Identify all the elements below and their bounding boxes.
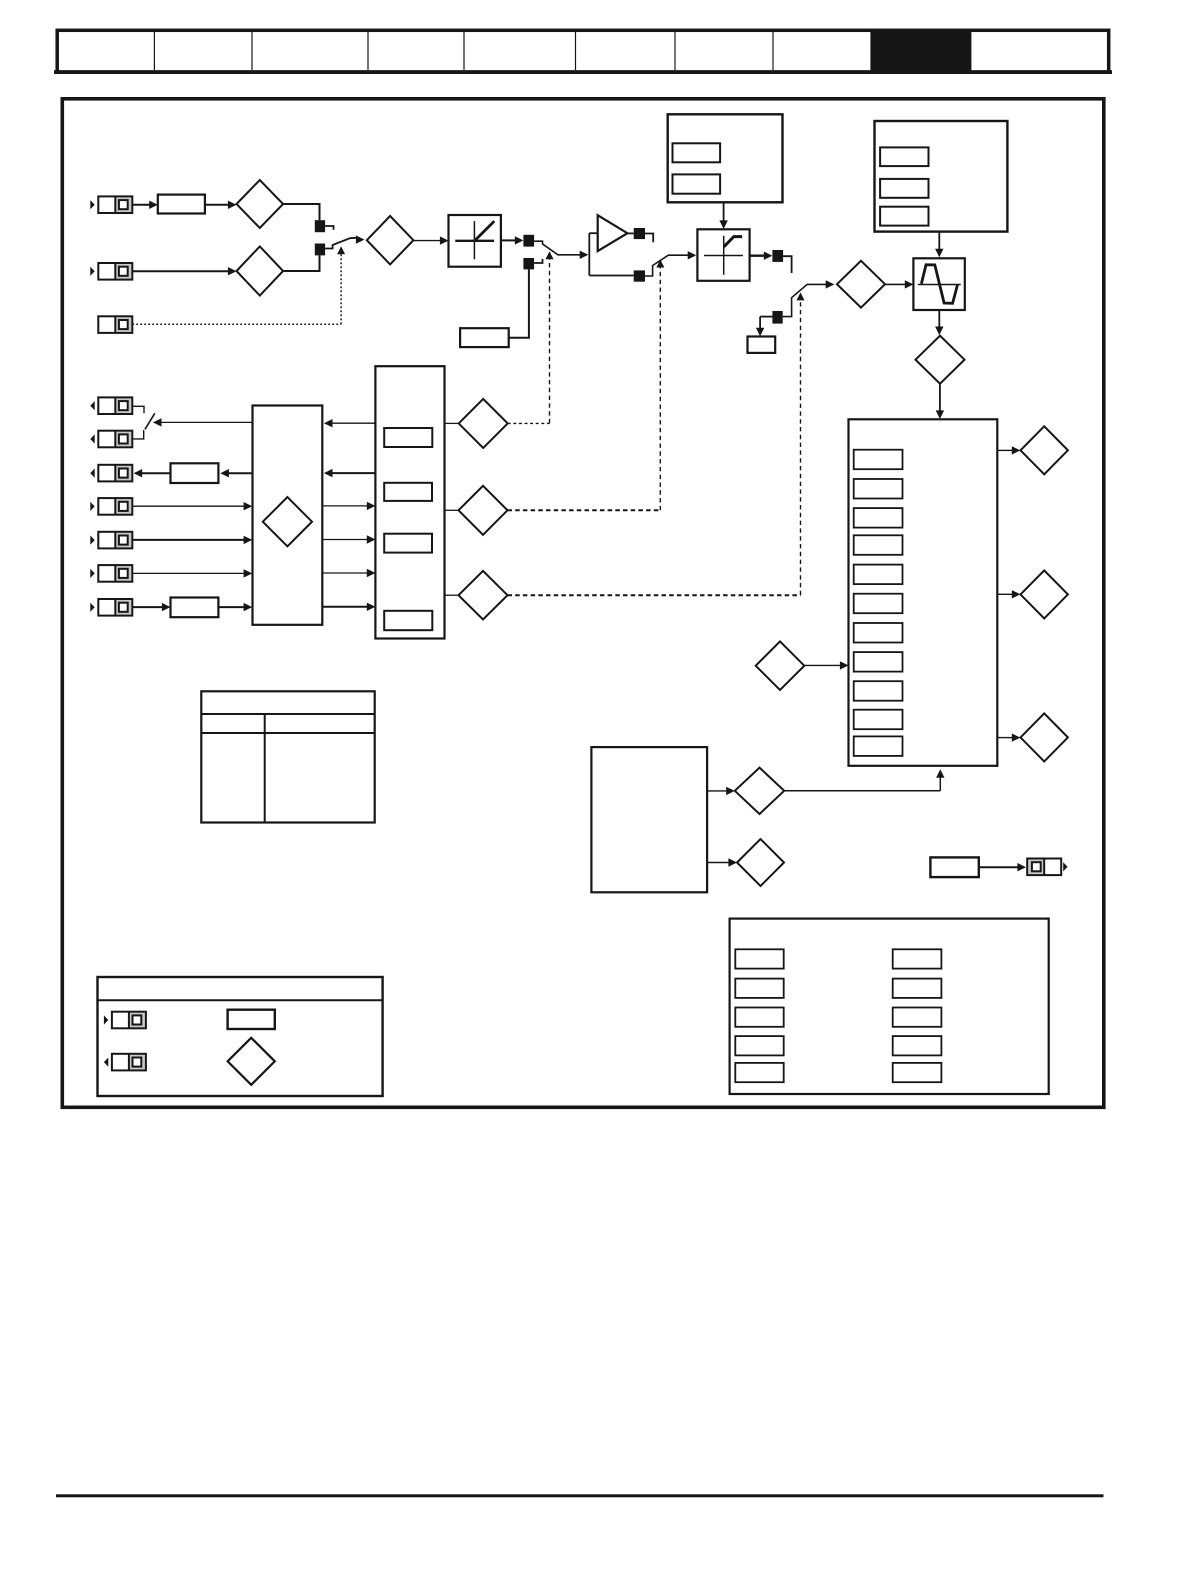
wire BB to D9 [997,446,1020,454]
key parameter box [228,1010,275,1029]
terminal T8 digital input [90,532,132,549]
wire R4 to selector [218,603,252,611]
wire junction bypass [589,275,633,277]
wire T9 to selector [132,569,252,577]
wire T5 hook [131,430,143,439]
wire selector to R3 [220,469,252,477]
switch S4 contact b [772,311,782,324]
wire G2 to wave block [935,232,943,258]
terminal T2 analog input 1 (-) [90,263,132,280]
wire wave block to D5 [935,310,943,335]
wire selector to CB row4 [322,535,375,543]
group box G1 maximum/minimum scaling parameters [668,114,783,202]
legend box RB parameter list [730,919,1049,1094]
key output terminal [104,1054,146,1071]
wire D4 to wave block [885,280,914,288]
switch S3 contact a [523,235,534,247]
header navigation bar (current section highlighted) [54,30,1112,74]
terminal T1 analog input 1 (+) [90,196,132,213]
wave-shaping block U3 (S-ramp characteristic) [913,258,964,310]
wire B1 to D1 [205,201,237,209]
wire T1 to offset box [132,201,158,209]
diamond D9 status 1 [1021,426,1068,474]
node junction amp input [588,233,590,275]
terminal T9 digital input [90,565,132,582]
terminal T3 mode select [98,316,132,333]
wire D2 to switch S1 lower [283,255,319,271]
wire selector to S0 [153,418,253,426]
wire S5 to sample box 2 [756,317,773,337]
diamond D7 source 2 [459,486,508,535]
wire selector to CB row6 [322,603,375,611]
dashed wire D8 to S4 [508,292,805,595]
wire limiter to switch S4 [750,252,773,260]
terminal T7 digital input [90,498,132,515]
footer rule [56,1494,1104,1497]
op-amp A1 [598,215,628,251]
wire G1 to limiter [719,202,727,229]
dotted wire T3 to S1 [132,246,345,324]
parameter box SR2 threshold [748,337,776,353]
switch S2 contact a [634,228,654,242]
wire G3 to D13 [707,787,735,795]
selector box SB1 digital I/O control [253,406,323,625]
parameter box offset B1 [158,195,205,214]
switch S4 wiper [783,280,835,316]
switch S1 contact a [315,220,334,232]
switch S0 arm [145,413,155,429]
terminal T4 output relay [90,397,132,414]
key input terminal [104,1012,146,1029]
switch S2 contact b [634,270,645,281]
wire D12 to BB [804,661,848,669]
wire junction to amp [589,232,598,234]
wire CB to D6 [445,422,459,424]
key diamond read-only [228,1038,275,1085]
terminal T10 digital input [90,599,132,616]
parameter box R3 scaling [171,463,219,483]
wire G3 to D14 [707,858,737,866]
terminal T6 analog output [90,465,132,482]
wire R3 to T6 [134,469,171,477]
wire OUT to terminal [979,863,1026,871]
diamond D10 status 2 [1021,570,1068,618]
parameter box SR1 current loop loss [460,328,509,347]
diagram frame [62,99,1104,1108]
terminal T5 output [90,431,132,448]
wire BB to D10 [997,590,1020,598]
wire D13 to BB bottom [784,769,944,791]
diamond D13 run [735,768,784,814]
main block BB sequencer parameters [849,419,998,766]
parameter box R4 invert [171,598,219,618]
diamond D11 status 3 [1021,713,1068,761]
diamond D1 scaling [237,180,284,228]
wire T10 to R4 [132,603,170,611]
wire T8 to selector [132,536,252,544]
dashed wire D6 to S3 [508,251,554,423]
group box G3 sequencer control [591,747,707,892]
wire D3 to scaling block [413,236,448,244]
group box G2 ramp parameters [875,121,1008,232]
limiter block U2 (saturation characteristic) [697,229,749,280]
diamond D2 scaling [237,246,284,295]
column box CB source parameters [375,366,444,638]
switch S4 contact a [772,250,791,273]
switch S3 wiper [534,241,588,259]
wire D5 to main block [936,384,944,419]
scaling block U1 (gain characteristic) [449,215,501,267]
switch S1 wiper [325,235,364,248]
diamond D12 enable [756,641,805,690]
wire BB to D11 [997,733,1020,741]
switch S2 wiper [645,251,696,276]
wire D1 to switch S1 upper [283,204,319,220]
wire T2 to D2 [132,267,236,275]
wire CB to selector row1 [324,419,376,427]
wire amp out to S2a [627,232,633,234]
key box KB [98,977,383,1096]
wire CB to D8 [445,594,459,596]
wire T4 hook [131,406,144,413]
diamond D6 source 1 [459,399,508,448]
table TB logic truth table [201,691,374,822]
diamond D8 source 3 [459,571,508,620]
wire scaling to switch S3 [501,236,524,244]
diamond D4 reference selected [837,261,885,308]
wire selector to CB row3 [322,502,375,510]
wire CB to selector row2 [324,469,376,477]
switch S3 contact b [523,258,542,269]
switch S1 contact b [315,244,325,256]
wire CB to D7 [445,509,459,511]
diamond D14 stop [737,839,784,886]
diamond D5 pre-ramp reference [916,336,965,384]
terminal TOUT status output [1027,859,1067,876]
wire T7 to selector [132,502,252,510]
diamond D3 input level [367,216,414,264]
dashed wire D7 to S2 [508,260,665,511]
parameter box OUT status word [930,857,978,877]
diamond SB1 state [263,497,312,546]
wire S3b to sample box [509,269,529,337]
wire selector to CB row5 [322,569,375,577]
